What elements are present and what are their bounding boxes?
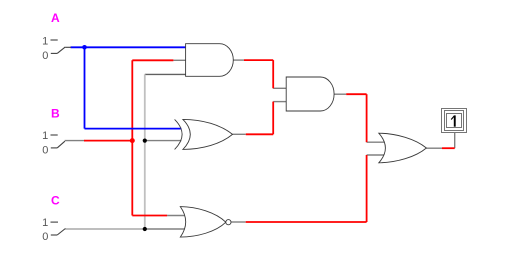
svg-text:1: 1 bbox=[42, 36, 48, 48]
svg-text:A: A bbox=[51, 11, 60, 25]
svg-text:0: 0 bbox=[42, 50, 48, 62]
svg-text:0: 0 bbox=[42, 231, 48, 243]
svg-text:1: 1 bbox=[42, 217, 48, 229]
svg-text:0: 0 bbox=[42, 145, 48, 157]
svg-text:B: B bbox=[51, 107, 60, 121]
svg-text:C: C bbox=[51, 194, 60, 208]
svg-text:1: 1 bbox=[42, 130, 48, 142]
